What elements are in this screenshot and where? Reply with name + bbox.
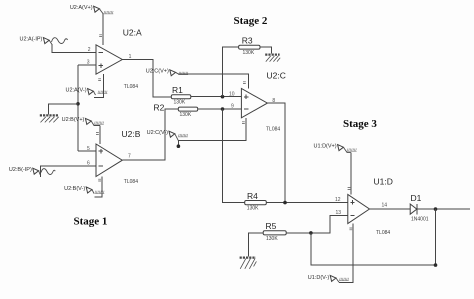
resistor R5 <box>263 221 286 242</box>
svg-text:12: 12 <box>335 197 341 203</box>
svg-text:3: 3 <box>87 60 90 66</box>
svg-text:D1: D1 <box>411 193 422 203</box>
svg-text:1N4001: 1N4001 <box>411 217 429 223</box>
svg-text:130K: 130K <box>266 236 278 242</box>
wire U2:B V+ pin <box>99 126 101 145</box>
svg-text:9: 9 <box>231 104 234 110</box>
diode D1 <box>410 193 429 223</box>
wire U1:D V- pin <box>339 224 353 283</box>
wire R2 to pin9 <box>198 108 242 110</box>
svg-text:TL084: TL084 <box>124 179 138 185</box>
pin 11 tick <box>98 79 101 81</box>
terminal U1:D(V+) <box>314 144 357 153</box>
terminal U2:A(-IP) with sine source <box>19 37 67 45</box>
wire U1:D V+ pin <box>350 152 352 194</box>
svg-text:8: 8 <box>272 98 275 104</box>
ground at R5 <box>240 258 257 269</box>
svg-text:U2:A(V+): U2:A(V+) <box>70 5 93 11</box>
op-amp U2:B <box>96 129 141 185</box>
node junction dot <box>76 102 80 106</box>
svg-text:130K: 130K <box>174 99 186 105</box>
terminal U2:C(V-) <box>147 130 188 141</box>
ground <box>40 115 59 122</box>
terminal U2:C(V+) <box>146 68 188 76</box>
terminal U1:D(V-) <box>308 275 349 282</box>
pin 4 tick <box>96 133 99 135</box>
svg-text:R5: R5 <box>266 221 277 231</box>
wire U2:C output down to R4 node <box>267 103 285 203</box>
svg-text:1: 1 <box>129 54 132 60</box>
svg-text:Stage 1: Stage 1 <box>74 216 108 228</box>
svg-text:R4: R4 <box>247 191 258 201</box>
wire U2:B pin5 <box>78 150 96 152</box>
wire U2:A output to R1 <box>122 60 171 98</box>
svg-text:U2:B: U2:B <box>122 129 141 139</box>
svg-text:TL084: TL084 <box>376 230 390 236</box>
op-amp U1:D <box>348 177 393 237</box>
svg-text:U2:C(V-): U2:C(V-) <box>147 130 169 136</box>
svg-text:R3: R3 <box>242 35 253 45</box>
wire input to U2:A pin2 <box>52 44 96 53</box>
resistor R2 <box>154 102 198 117</box>
svg-text:10: 10 <box>229 91 235 97</box>
svg-text:130K: 130K <box>243 50 255 56</box>
pin 11 tick <box>242 122 245 124</box>
svg-text:U2:C(V+): U2:C(V+) <box>146 68 169 74</box>
svg-text:14: 14 <box>382 203 388 209</box>
junction feedback corner <box>434 263 438 267</box>
resistor R4 <box>245 191 267 212</box>
wire pin13 riser <box>311 215 348 233</box>
resistor R1 <box>171 85 191 105</box>
wire U2:B V- pin <box>95 177 103 197</box>
wire left column node <box>77 65 79 151</box>
terminal U2:B(V-) <box>64 186 104 194</box>
svg-text:13: 13 <box>336 210 342 216</box>
junction pin10 node <box>221 95 225 99</box>
pin 11 tick <box>98 179 101 181</box>
svg-text:R2: R2 <box>154 102 165 112</box>
svg-text:U2:C: U2:C <box>267 71 286 81</box>
svg-text:U2:B(V+): U2:B(V+) <box>62 117 85 123</box>
svg-text:TL084: TL084 <box>124 84 138 90</box>
junction diode output node <box>434 207 438 211</box>
wire R5 right to feedback node <box>286 232 311 234</box>
wire input to U2:B pin6 <box>40 166 96 177</box>
pin 11 tick <box>349 228 352 230</box>
svg-text:U2:A: U2:A <box>123 28 142 38</box>
wire R1 to pin10 <box>191 96 242 98</box>
pin 4 tick <box>99 35 102 37</box>
resistor R3 <box>239 35 260 55</box>
ground at R3 <box>265 55 280 62</box>
wire R3 right to ground <box>260 47 272 54</box>
wire U2:A pin3 <box>78 64 96 66</box>
junction R4 output node <box>283 201 287 205</box>
svg-text:U2:B(-IP): U2:B(-IP) <box>9 167 32 173</box>
svg-text:6: 6 <box>87 161 90 167</box>
svg-text:Stage 3: Stage 3 <box>343 118 377 130</box>
svg-text:U1:D: U1:D <box>374 177 393 187</box>
svg-text:U1:D(V+): U1:D(V+) <box>314 144 337 150</box>
wire U2:C V+ pin <box>178 74 249 89</box>
wire U2:A V- pin <box>94 74 104 97</box>
wire to ground <box>49 104 78 115</box>
svg-text:2: 2 <box>88 47 91 53</box>
svg-text:U2:A(V-): U2:A(V-) <box>66 87 87 93</box>
wire U1:D output to diode <box>370 208 411 210</box>
terminal U2:B(V+) <box>62 117 104 126</box>
svg-text:TL084: TL084 <box>266 126 280 132</box>
svg-text:U2:B(V-): U2:B(V-) <box>64 186 85 192</box>
terminal U2:A(V+) <box>70 5 113 14</box>
pin 4 tick <box>348 188 351 190</box>
op-amp U2:A <box>96 28 142 90</box>
wire U2:C V- pin <box>178 118 246 146</box>
terminal U2:A(V-) <box>66 87 108 95</box>
wire diode to output edge <box>417 208 470 210</box>
svg-text:U1:D(V-): U1:D(V-) <box>308 275 330 281</box>
terminal U2:B(-IP) with sine source <box>9 167 55 175</box>
wire pin9 node down to R4 <box>223 109 245 203</box>
svg-text:7: 7 <box>128 154 131 160</box>
wire U2:A V+ pin <box>102 14 104 45</box>
svg-text:U2:A(-IP): U2:A(-IP) <box>19 37 42 43</box>
svg-text:130K: 130K <box>247 206 259 212</box>
svg-text:5: 5 <box>87 146 90 152</box>
wire R3 left down to pin10 node <box>222 47 238 97</box>
op-amp U2:C <box>241 71 285 133</box>
junction R5/feedback node <box>309 231 313 235</box>
svg-text:R1: R1 <box>172 85 183 95</box>
wire R5 left to ground <box>249 233 264 257</box>
junction pin9 node <box>221 107 225 111</box>
wire feedback loop <box>311 209 436 265</box>
pin 4 tick <box>243 82 246 84</box>
svg-text:Stage 2: Stage 2 <box>234 15 268 27</box>
wire U2:B output to R2 <box>122 109 178 160</box>
svg-text:130K: 130K <box>180 112 192 118</box>
junction dot V- stub <box>177 144 181 148</box>
wire R4 to U1:D pin12 <box>266 202 348 204</box>
